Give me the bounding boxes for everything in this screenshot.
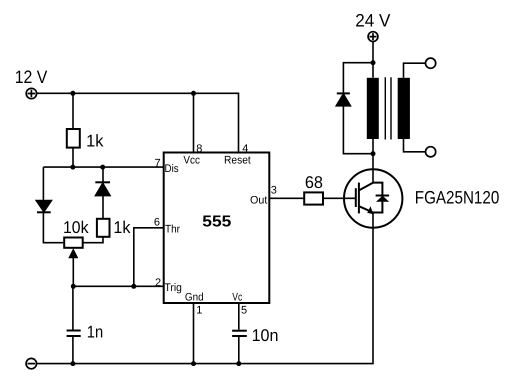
svg-text:7: 7 (155, 158, 161, 170)
svg-text:FGA25N120: FGA25N120 (415, 188, 500, 208)
svg-text:10n: 10n (252, 326, 279, 345)
svg-text:1: 1 (196, 305, 202, 317)
svg-text:1n: 1n (87, 323, 103, 342)
svg-text:Vcc: Vcc (183, 154, 200, 166)
svg-text:1k: 1k (86, 132, 104, 151)
svg-text:12 V: 12 V (15, 67, 48, 87)
svg-text:Vc: Vc (232, 292, 242, 304)
svg-text:8: 8 (196, 143, 202, 155)
svg-text:Trig: Trig (165, 282, 182, 294)
svg-text:Out: Out (250, 194, 267, 206)
svg-text:555: 555 (202, 214, 231, 231)
svg-text:Gnd: Gnd (185, 292, 204, 304)
svg-text:24 V: 24 V (355, 11, 390, 31)
svg-text:Reset: Reset (224, 154, 251, 166)
svg-text:10k: 10k (63, 218, 89, 237)
svg-text:5: 5 (241, 305, 247, 317)
svg-text:3: 3 (271, 184, 277, 196)
svg-text:4: 4 (242, 143, 248, 155)
svg-text:Thr: Thr (165, 223, 180, 235)
svg-text:68: 68 (305, 173, 323, 192)
svg-text:6: 6 (154, 217, 160, 229)
svg-text:1k: 1k (113, 218, 130, 237)
svg-text:Dis: Dis (165, 163, 180, 175)
svg-text:2: 2 (155, 277, 161, 289)
